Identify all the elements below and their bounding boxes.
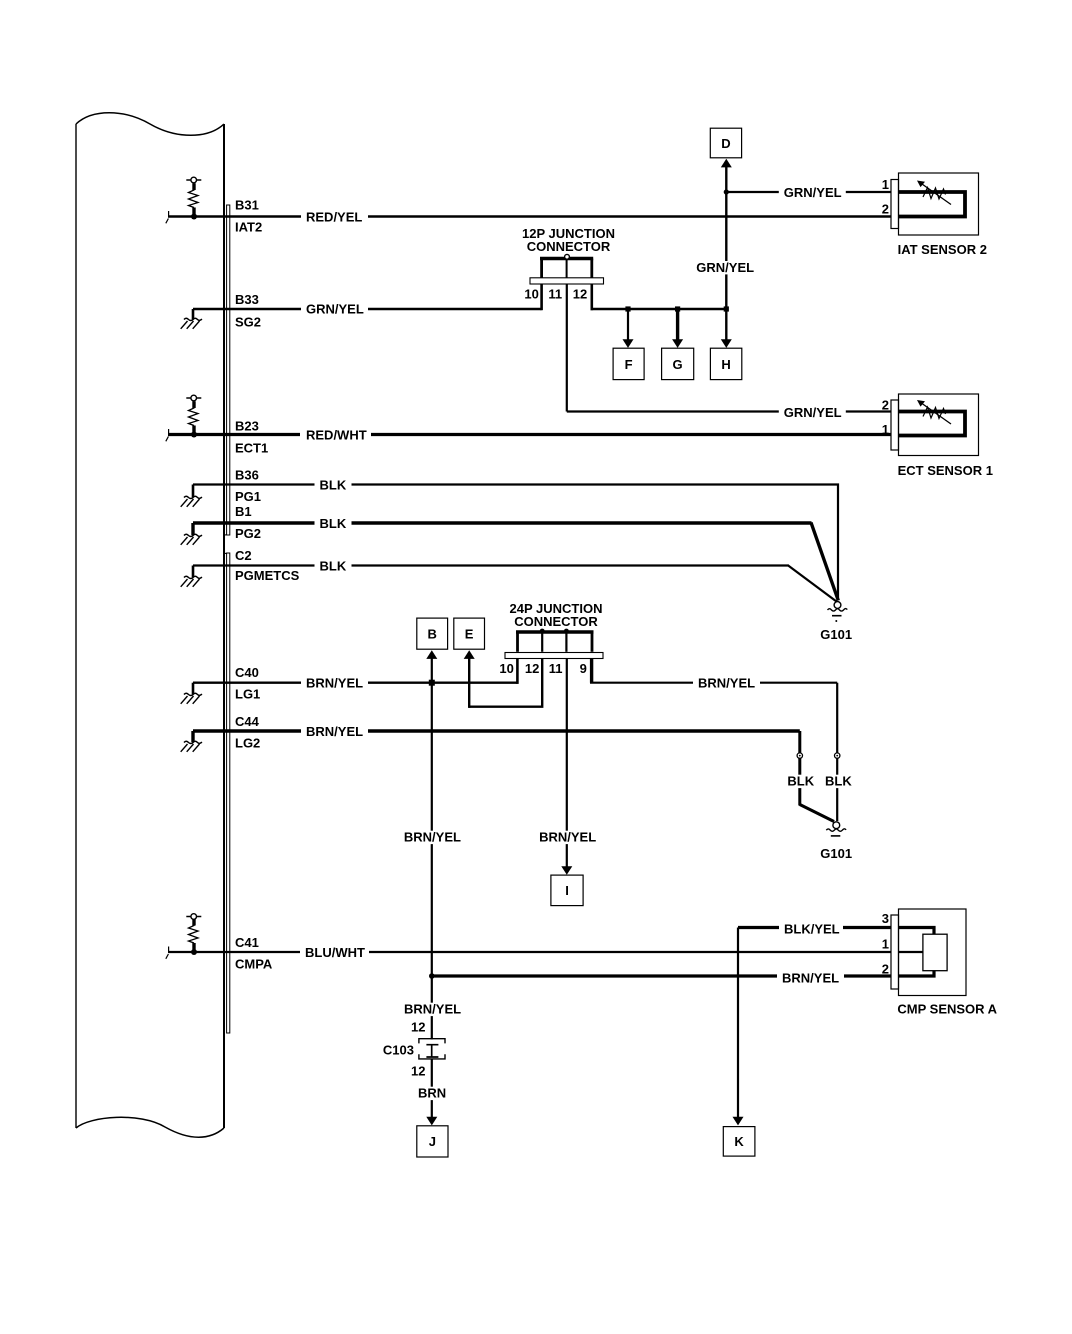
wire color BLK (B36) [315, 478, 352, 493]
svg-text:SG2: SG2 [235, 315, 261, 330]
terminal circle on C44 BLK wire [797, 753, 802, 758]
svg-text:K: K [734, 1134, 744, 1149]
wire GRN/YEL from 12P pin 11 to ECT sensor 1 pin 2 [567, 410, 891, 412]
wire color BRN/YEL (B branch) [399, 830, 466, 845]
svg-text:B1: B1 [235, 504, 252, 519]
svg-text:BLK: BLK [787, 774, 814, 789]
svg-text:CONNECTOR: CONNECTOR [527, 239, 611, 254]
PCM/ECM box left edge [75, 124, 77, 1128]
svg-text:CMP SENSOR A: CMP SENSOR A [897, 1001, 997, 1016]
ECT sensor 1 outer box [899, 394, 979, 456]
svg-text:12: 12 [411, 1064, 425, 1079]
wire below C103 to J arrow [431, 1059, 433, 1118]
svg-text:1: 1 [882, 937, 889, 952]
junction dot bus-G [675, 306, 680, 311]
CMP sensor A outer box [899, 909, 967, 996]
wire color BRN/YEL (C44) [301, 724, 368, 739]
wire C2 BLK horizontal [193, 564, 788, 566]
svg-text:12: 12 [411, 1020, 425, 1035]
svg-text:C103: C103 [383, 1043, 414, 1058]
wire color BRN (below C103) [413, 1086, 451, 1101]
svg-text:2: 2 [882, 962, 889, 977]
box B [417, 618, 448, 649]
svg-text:C2: C2 [235, 548, 252, 563]
svg-text:GRN/YEL: GRN/YEL [306, 302, 364, 317]
IAT sensor 2 thermistor element [899, 181, 966, 217]
wire color BLK (right of G101 lower) [820, 774, 857, 789]
wire color RED/WHT [300, 428, 371, 443]
wire C44 BRN/YEL horizontal (bold) [193, 729, 800, 732]
wire C40 BRN/YEL to 24P pin 10 [193, 682, 517, 684]
svg-text:G101: G101 [820, 846, 852, 861]
svg-text:11: 11 [548, 286, 562, 301]
svg-text:D: D [721, 136, 730, 151]
ground symbol inside PCM at SG2 [181, 309, 202, 329]
wire color BRN/YEL (above C103) [399, 1002, 466, 1017]
svg-text:G101: G101 [820, 627, 852, 642]
svg-text:E: E [465, 626, 474, 641]
svg-text:RED/WHT: RED/WHT [306, 428, 367, 443]
svg-text:B31: B31 [235, 198, 259, 213]
arrow down into box K [733, 1117, 744, 1126]
box H [710, 348, 741, 379]
svg-text:GRN/YEL: GRN/YEL [696, 260, 754, 275]
wire color BLK (B1) [315, 516, 352, 531]
CMP sensor A internal element [899, 928, 948, 977]
svg-text:PG2: PG2 [235, 526, 261, 541]
wire color BRN/YEL (CMP pin 2) [777, 971, 844, 986]
wire B branch BRN/YEL vertical from B box to C103 [431, 658, 433, 1039]
wire C41 BLU/WHT to CMP sensor A pin 1 [168, 951, 891, 953]
svg-text:BLK: BLK [825, 774, 852, 789]
svg-text:BRN/YEL: BRN/YEL [404, 1002, 461, 1017]
svg-text:LG2: LG2 [235, 736, 260, 751]
PCM connector strip B (pins B31..B1) [227, 205, 230, 535]
junction dot bus-H [724, 306, 729, 311]
box K [723, 1127, 755, 1157]
svg-text:LG1: LG1 [235, 687, 260, 702]
wire drop to F [627, 309, 629, 340]
wire color GRN/YEL (ECT pin 2) [779, 405, 846, 420]
PCM/ECM box bottom torn-edge wave [76, 1117, 224, 1137]
wire color GRN/YEL (B33) [301, 302, 368, 317]
ground G101 upper [828, 602, 848, 622]
svg-text:PG1: PG1 [235, 489, 261, 504]
box D [710, 128, 741, 158]
box J [417, 1126, 448, 1157]
svg-text:CONNECTOR: CONNECTOR [514, 614, 598, 629]
svg-text:B36: B36 [235, 468, 259, 483]
wire color GRN/YEL (IAT pin 1) [779, 185, 846, 200]
wire bus from 12P pin 12 to F G H drops [591, 308, 727, 310]
svg-text:BRN/YEL: BRN/YEL [698, 676, 755, 691]
wire GRN/YEL from D junction to IAT sensor 2 pin 1 [726, 191, 891, 193]
wire BLK/YEL from K corner to CMP sensor A pin 3 (bold) [738, 926, 891, 929]
box F [613, 348, 644, 379]
CMP sensor A connector bracket [891, 915, 899, 989]
wire B1 BLK horizontal (bold) [193, 521, 812, 524]
wire 24P pin 11 stem down to I [566, 659, 568, 867]
wire BRN/YEL/BLK down to G101 lower [836, 683, 838, 821]
wire B23 RED/WHT to ECT sensor 1 pin 1 [168, 433, 891, 436]
svg-text:12: 12 [525, 661, 539, 676]
internal resistor at pin B31 [186, 177, 201, 219]
arrow up into box B [426, 650, 437, 659]
ground symbol inside PCM at PGMETCS [181, 566, 202, 587]
svg-text:10: 10 [499, 661, 513, 676]
svg-text:C44: C44 [235, 714, 260, 729]
svg-text:ECT SENSOR 1: ECT SENSOR 1 [898, 463, 993, 478]
junction dot B branch / CMP BRN/YEL [429, 973, 435, 979]
wire color BRN/YEL (C40) [301, 676, 368, 691]
internal resistor at pin B23 [186, 395, 201, 437]
wire 24P pin 9 stem (bold) [590, 659, 593, 683]
PCM/ECM box right edge [223, 124, 225, 1128]
terminal circle on pin9 BLK wire [835, 753, 840, 758]
svg-text:RED/YEL: RED/YEL [306, 210, 362, 225]
svg-text:12: 12 [573, 286, 587, 301]
box E [454, 618, 485, 649]
wire BRN/YEL from B branch junction to CMP sensor A pin 2 (bold) [432, 974, 891, 977]
svg-text:IAT2: IAT2 [235, 220, 262, 235]
wire C44 BLK vertical (bold) [798, 731, 801, 806]
svg-text:G: G [673, 357, 683, 372]
wire color BRN/YEL (24P pin 9) [693, 676, 760, 691]
internal resistor at pin C41 [186, 914, 201, 955]
svg-text:BLK: BLK [320, 478, 347, 493]
wire 24P pin 12 stem down to E loop [469, 659, 542, 707]
svg-text:C41: C41 [235, 935, 259, 950]
wire 12P pin 12 stem [590, 284, 593, 310]
ground symbol inside PCM at PG2 [181, 523, 202, 545]
svg-text:BRN/YEL: BRN/YEL [782, 971, 839, 986]
junction dot bus-F [625, 306, 630, 311]
arrow up into box E [464, 650, 475, 659]
wire B1 BLK diagonal to G101 [811, 523, 838, 601]
wire B33 GRN/YEL to 12P junction connector pin 10 [193, 308, 542, 310]
wire C44 BLK diagonal to G101 lower [800, 805, 834, 822]
ECT sensor 1 connector bracket [891, 400, 899, 450]
svg-text:J: J [429, 1134, 436, 1149]
wire E branch vertical [468, 658, 470, 708]
box G [662, 348, 694, 379]
svg-text:C40: C40 [235, 665, 259, 680]
wire B36 BLK to G101 corner [193, 485, 838, 601]
svg-text:10: 10 [524, 286, 538, 301]
IAT sensor 2 connector bracket [891, 180, 899, 229]
24P junction connector symbol [505, 629, 603, 659]
wire color BLK (C2) [315, 559, 352, 574]
ECT sensor 1 thermistor element [899, 400, 966, 436]
svg-text:H: H [721, 357, 730, 372]
wire B31 RED/YEL to IAT sensor 2 pin 2 [168, 215, 891, 217]
svg-text:2: 2 [882, 201, 889, 216]
svg-text:BLK: BLK [320, 516, 347, 531]
terminal slash at B23 wire end [166, 429, 169, 441]
wire K branch vertical [737, 928, 739, 1118]
svg-text:CMPA: CMPA [235, 957, 273, 972]
ground G101 lower [826, 822, 846, 836]
terminal slash at C41 wire end [166, 947, 169, 959]
svg-text:B23: B23 [235, 419, 259, 434]
svg-text:BLU/WHT: BLU/WHT [305, 945, 365, 960]
svg-text:11: 11 [549, 661, 563, 676]
wire 24P pin 10 stem [516, 659, 519, 684]
box I [551, 875, 583, 906]
strip C top hook [225, 552, 227, 554]
svg-text:1: 1 [882, 177, 889, 192]
svg-text:BRN/YEL: BRN/YEL [306, 676, 363, 691]
terminal slash at B31 wire end [166, 211, 169, 223]
wire drop to G (bold) [676, 309, 679, 340]
svg-text:1: 1 [882, 422, 889, 437]
svg-text:F: F [625, 357, 633, 372]
arrow up into box D [721, 159, 732, 168]
12P junction connector symbol [530, 254, 604, 284]
svg-text:BLK: BLK [320, 559, 347, 574]
svg-text:BRN: BRN [418, 1086, 446, 1101]
svg-text:BLK/YEL: BLK/YEL [784, 922, 840, 937]
C103 inline connector symbol [419, 1039, 445, 1059]
wire color GRN/YEL (D branch) [691, 260, 758, 275]
wire color BRN/YEL (I branch) [534, 830, 601, 845]
svg-text:GRN/YEL: GRN/YEL [784, 185, 842, 200]
junction dot GRN/YEL at D branch [724, 189, 729, 194]
arrow down into box I [561, 866, 572, 875]
svg-text:2: 2 [882, 398, 889, 413]
svg-text:B33: B33 [235, 292, 259, 307]
svg-text:PGMETCS: PGMETCS [235, 568, 300, 583]
strip B bottom hook [225, 534, 227, 536]
svg-text:IAT SENSOR 2: IAT SENSOR 2 [898, 242, 987, 257]
svg-text:3: 3 [882, 911, 889, 926]
PCM/ECM box top torn-edge wave [76, 113, 224, 136]
svg-text:GRN/YEL: GRN/YEL [784, 405, 842, 420]
svg-text:BRN/YEL: BRN/YEL [404, 830, 461, 845]
svg-text:ECT1: ECT1 [235, 441, 268, 456]
svg-text:9: 9 [580, 661, 587, 676]
svg-text:I: I [565, 883, 569, 898]
arrow down into box J [426, 1117, 437, 1126]
IAT sensor 2 outer box [899, 173, 979, 235]
ground symbol inside PCM at LG2 [181, 731, 202, 752]
svg-text:B: B [428, 626, 437, 641]
wire color BLK (left of G101 lower) [782, 774, 819, 789]
wire color RED/YEL [301, 210, 368, 225]
svg-text:BRN/YEL: BRN/YEL [539, 830, 596, 845]
wire 12P pin 11 stem down to ECT GRN/YEL [566, 284, 568, 412]
PCM connector strip C (pins C2..C41) [227, 553, 230, 1033]
junction dot C40/B branch [429, 680, 435, 686]
arrow down into box H [721, 339, 732, 348]
arrow down into box F [623, 339, 634, 348]
ground symbol inside PCM at PG1 [181, 485, 202, 507]
wire GRN/YEL vertical through D junction down to H [725, 167, 727, 341]
wire 12P pin 10 stem [540, 284, 543, 310]
wire color BLK/YEL (CMP pin 3) [779, 922, 843, 937]
arrow down into box G [672, 339, 683, 348]
svg-text:BRN/YEL: BRN/YEL [306, 724, 363, 739]
wire C2 BLK diagonal to G101 [788, 565, 837, 602]
wire color BLU/WHT [300, 945, 369, 960]
wire BRN/YEL from 24P pin 9 to right [590, 682, 837, 684]
ground symbol inside PCM at LG1 [181, 683, 202, 704]
